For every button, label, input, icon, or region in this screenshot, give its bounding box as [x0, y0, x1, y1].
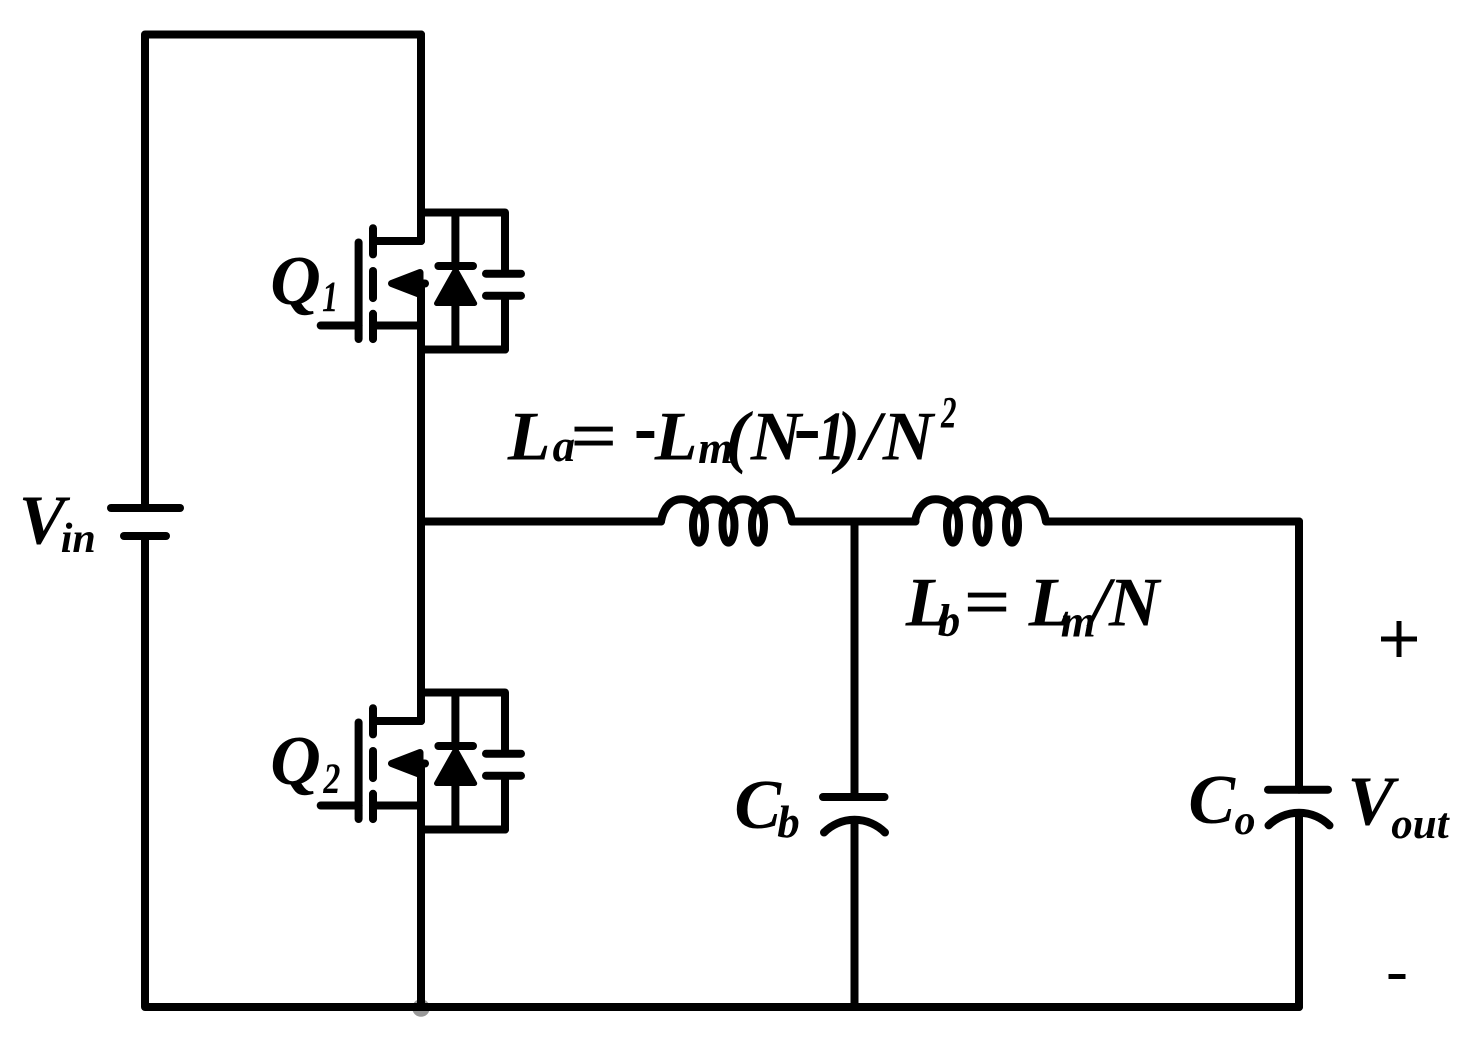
svg-text:(: (: [726, 399, 754, 476]
svg-text:Q: Q: [270, 243, 321, 320]
svg-text:1: 1: [322, 274, 338, 321]
svg-text:N: N: [1108, 565, 1162, 642]
svg-text:L: L: [654, 399, 698, 476]
svg-text:=: =: [963, 565, 1010, 642]
svg-text:L: L: [507, 399, 551, 476]
svg-text:C: C: [734, 767, 782, 844]
svg-text:N: N: [750, 399, 804, 476]
svg-text:o: o: [1235, 798, 1256, 844]
svg-text:=: =: [570, 399, 617, 476]
svg-text:Q: Q: [270, 723, 321, 800]
svg-text:b: b: [777, 797, 800, 847]
svg-text:/: /: [856, 399, 886, 476]
svg-text:2: 2: [323, 756, 341, 803]
svg-text:b: b: [938, 595, 961, 645]
svg-text:N: N: [882, 399, 936, 476]
svg-text:2: 2: [940, 388, 956, 437]
svg-text:C: C: [1188, 762, 1236, 839]
svg-text:in: in: [61, 516, 96, 562]
svg-text:out: out: [1391, 801, 1450, 848]
